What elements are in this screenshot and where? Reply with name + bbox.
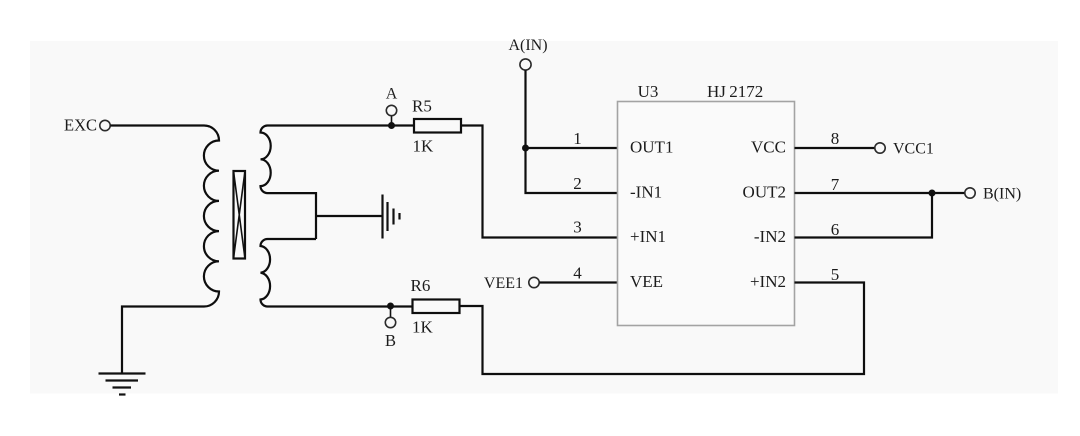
wire primary bottom to ground [122,307,204,373]
svg-text:A: A [386,86,398,103]
svg-text:A(IN): A(IN) [508,37,547,54]
svg-text:VCC: VCC [751,138,786,157]
svg-text:R6: R6 [411,276,431,295]
svg-text:HJ 2172: HJ 2172 [707,82,763,101]
center tap wires [268,193,317,239]
wire EXC to transformer primary [111,124,205,126]
ground (center tap, rotated) [383,195,400,239]
svg-text:+IN1: +IN1 [630,227,666,246]
wire pin 8 to VCC1 [795,147,875,149]
wire center tap to ground [316,215,382,217]
junction A(IN)/pin1 [522,145,529,152]
terminal VEE1 [484,275,539,292]
terminal A(IN) [508,37,547,70]
svg-text:7: 7 [831,175,840,194]
resistor R5 [412,97,461,156]
svg-text:2: 2 [573,174,582,193]
svg-text:R5: R5 [412,97,432,116]
svg-text:-IN1: -IN1 [630,183,662,202]
terminal B(IN) [965,186,1021,203]
svg-text:1K: 1K [412,318,434,337]
svg-text:OUT1: OUT1 [630,138,673,157]
terminal EXC [64,116,110,135]
svg-text:1: 1 [573,129,582,148]
wire pin 5 to R6 [460,283,865,375]
svg-text:-IN2: -IN2 [754,227,786,246]
resistor R6 [411,276,460,337]
svg-text:U3: U3 [638,82,659,101]
transformer secondary bottom winding [261,239,271,307]
svg-text:B: B [385,331,396,350]
svg-text:+IN2: +IN2 [750,272,786,291]
op-amp U3 body [618,82,795,326]
svg-text:1K: 1K [413,137,435,156]
svg-text:B(IN): B(IN) [983,186,1021,203]
page background [30,41,1058,394]
node A [386,86,398,130]
ground (primary) [99,374,146,395]
wire secondary bottom to R6 [268,305,413,307]
wire A(IN) to pin 2 [526,70,618,193]
junction pin7/pin6 [929,190,936,197]
transformer core [234,171,246,259]
wire A(IN) branch to pin 1 [526,147,618,149]
wire VEE1 to pin 4 [540,281,618,283]
wire R5 to pin 3 [461,126,618,238]
wire pin 6 to junction [795,193,933,238]
svg-text:4: 4 [573,264,582,283]
svg-text:VEE: VEE [630,272,663,291]
svg-text:5: 5 [831,265,840,284]
wire pin 7 to B(IN) [795,192,965,194]
svg-text:OUT2: OUT2 [743,183,786,202]
svg-text:6: 6 [831,220,840,239]
transformer secondary top winding [261,126,271,194]
svg-text:VEE1: VEE1 [484,275,523,292]
svg-text:VCC1: VCC1 [893,141,934,158]
terminal VCC1 [875,141,934,158]
wire secondary top to R5 [268,124,415,126]
svg-text:8: 8 [831,129,840,148]
svg-text:EXC: EXC [64,116,97,135]
transformer primary winding [204,126,219,307]
svg-text:3: 3 [573,218,582,237]
node B [385,303,396,351]
